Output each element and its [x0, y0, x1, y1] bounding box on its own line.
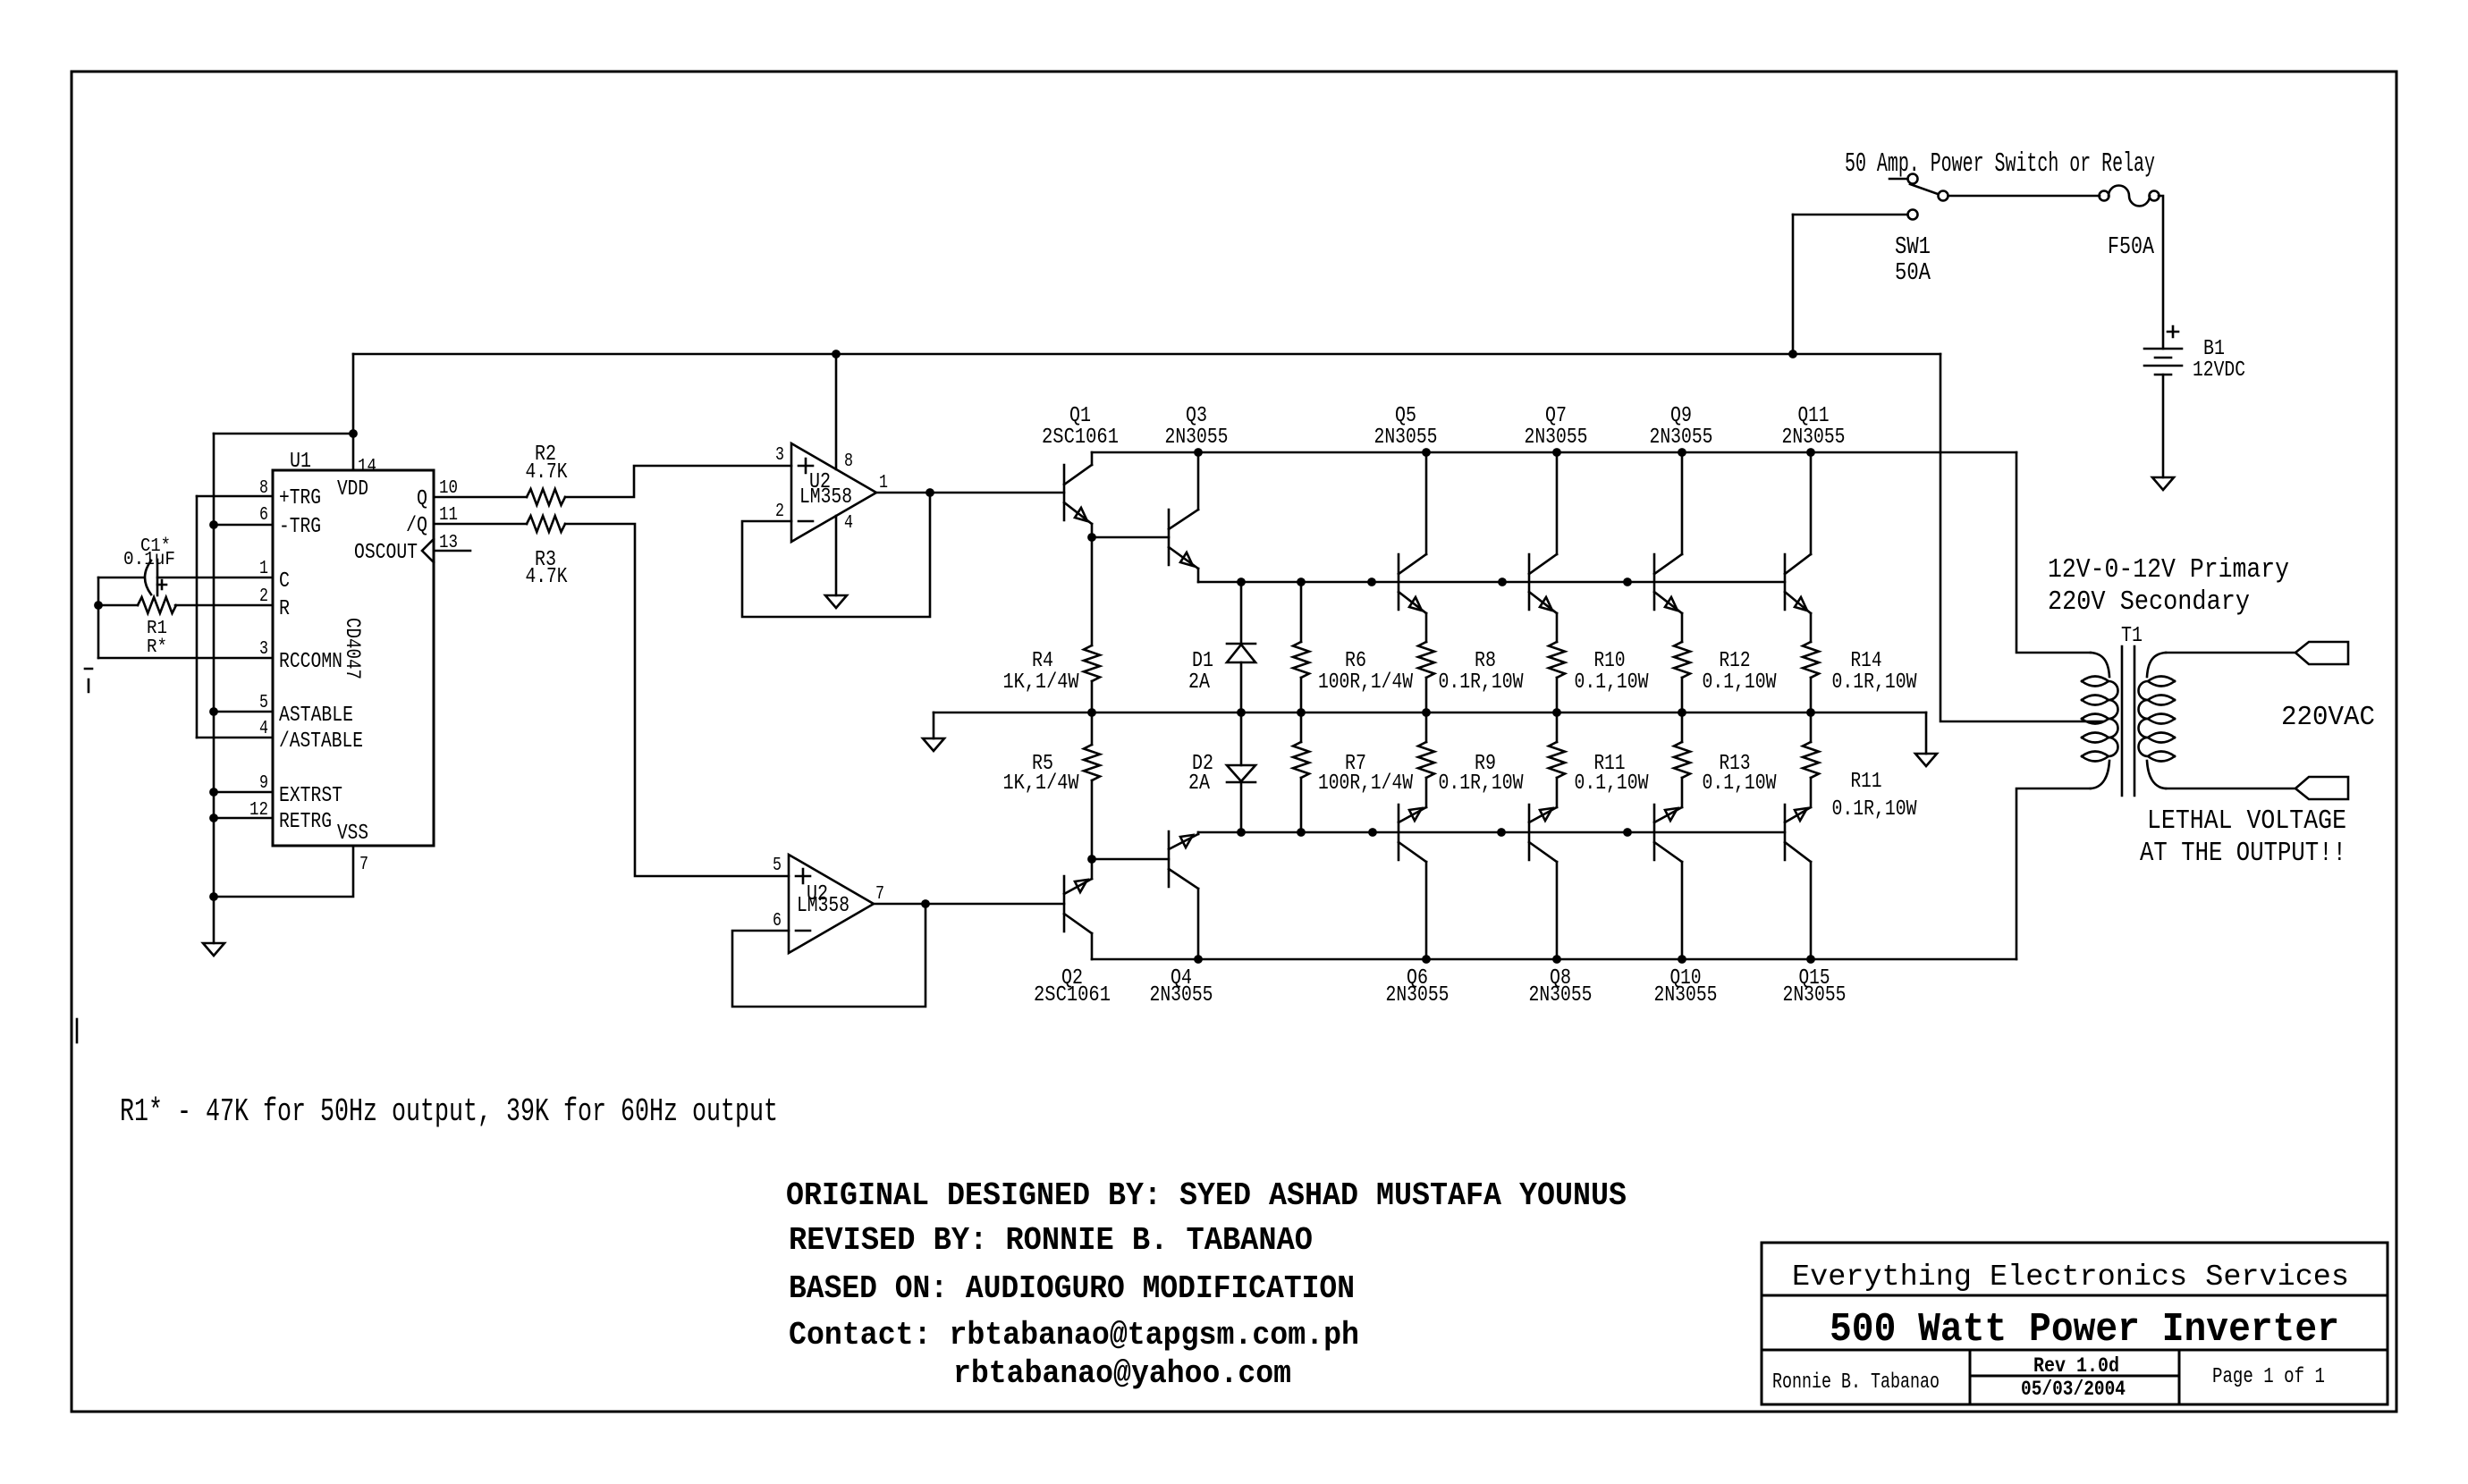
svg-text:R6: R6: [1345, 649, 1366, 673]
svg-text:0.1,10W: 0.1,10W: [1703, 670, 1777, 695]
node op-amp2 feedback tap: [921, 899, 930, 908]
svg-text:rbtabanao@yahoo.com: rbtabanao@yahoo.com: [953, 1355, 1291, 1392]
svg-text:1K,1/4W: 1K,1/4W: [1003, 772, 1079, 796]
wire bottom collector bus: [1092, 958, 2016, 961]
node Q6 collector tap: [1422, 955, 1431, 964]
node bottom base bus junction: [1368, 828, 1377, 837]
wire pin 13 OSCOUT stub: [434, 550, 470, 552]
wire Q15 collector to bottom bus: [1810, 862, 1813, 959]
svg-text:Q7: Q7: [1545, 404, 1567, 428]
svg-text:R12: R12: [1720, 649, 1751, 673]
svg-text:Contact: rbtabanao@tapgsm.com.: Contact: rbtabanao@tapgsm.com.ph: [789, 1317, 1359, 1353]
resistor R2 body: [527, 489, 565, 505]
svg-text:2SC1061: 2SC1061: [1042, 426, 1119, 450]
wire center emitter bus: [934, 712, 1926, 714]
wire Q6 collector to bottom bus: [1425, 862, 1428, 959]
wire left rail down to ground: [213, 434, 216, 943]
wire pin 8 V+ to bus: [835, 354, 838, 469]
wire Q3 collector to bus: [1197, 452, 1200, 510]
wire pin 4 /ASTABLE stub: [197, 737, 273, 739]
svg-text:+TRG: +TRG: [279, 486, 321, 510]
plus symbol U2B: [796, 869, 810, 883]
transformer T1 primary winding: [2091, 653, 2109, 677]
svg-text:10: 10: [439, 478, 458, 499]
wire R11 top lead: [1556, 712, 1559, 742]
resistor R1 body: [138, 597, 176, 613]
wire D1 anode lead: [1240, 662, 1243, 712]
plus symbol U2A: [799, 459, 813, 473]
battery B1: [2168, 326, 2178, 337]
transformer T1 core: [2122, 646, 2134, 796]
wire R8 bottom lead: [1425, 678, 1428, 712]
wire R1 left lead: [98, 604, 138, 607]
svg-text:2N3055: 2N3055: [1165, 426, 1229, 450]
wire pin 7 VSS to left rail: [214, 846, 353, 897]
wire R3 to op-amp pin5: [565, 524, 789, 876]
wire pin 11 /Q stub to R3: [434, 523, 527, 526]
node bottom base bus junction: [1497, 828, 1506, 837]
svg-text:220VAC: 220VAC: [2281, 702, 2375, 733]
node op-amp power tap: [832, 350, 841, 358]
ground under battery: [2152, 477, 2174, 490]
wire R7 bottom lead: [1300, 778, 1303, 832]
resistor R8 body: [1418, 642, 1434, 678]
node center bus junction: [1552, 708, 1561, 717]
svg-text:6: 6: [773, 911, 782, 932]
wire Q8 collector to bottom bus: [1556, 862, 1559, 959]
op-amp U2 first half triangle: [791, 443, 876, 542]
node top base bus junction: [1498, 578, 1507, 586]
wire R2 to op-amp pin3: [565, 466, 791, 497]
node Q10 collector tap: [1678, 955, 1686, 964]
wire secondary bottom to output: [2166, 788, 2295, 790]
wire switch drop to bus: [1792, 215, 1795, 354]
svg-text:D1: D1: [1192, 649, 1213, 673]
wire R6 top lead: [1300, 582, 1303, 642]
svg-text:-TRG: -TRG: [279, 515, 321, 539]
wire Q10 collector to bottom bus: [1681, 862, 1684, 959]
wire Q4 emitter to base bus: [1197, 832, 1200, 834]
svg-text:Ronnie B. Tabanao: Ronnie B. Tabanao: [1772, 1370, 1940, 1395]
svg-text:R8: R8: [1475, 649, 1496, 673]
wire Q5 emitter lead: [1425, 613, 1428, 642]
svg-text:T1: T1: [2121, 624, 2143, 648]
svg-text:2N3055: 2N3055: [1782, 426, 1846, 450]
wire Q7 collector to bus: [1556, 452, 1559, 554]
node switch tap: [1788, 350, 1797, 358]
title block box: [1762, 1243, 2388, 1404]
wire Q5 collector to bus: [1425, 452, 1428, 554]
resistor R7 body: [1293, 742, 1309, 778]
svg-text:0.1R,10W: 0.1R,10W: [1439, 772, 1524, 796]
wire D1 cathode lead: [1240, 582, 1243, 644]
node bottom base bus junction: [1297, 828, 1306, 837]
wire pin 8 +TRG stub: [197, 495, 273, 498]
node ASTABLE junction: [209, 707, 218, 716]
svg-text:Everything Electronics Service: Everything Electronics Services: [1792, 1261, 2349, 1294]
wire Q7 emitter lead: [1556, 613, 1559, 642]
svg-text:0.1R,10W: 0.1R,10W: [1439, 670, 1524, 695]
svg-text:2N3055: 2N3055: [1386, 983, 1450, 1008]
svg-text:R4: R4: [1032, 649, 1053, 673]
wire Q3 emitter to base bus: [1197, 569, 1200, 582]
wire R12 bottom lead: [1681, 678, 1684, 712]
node center bus junction: [1678, 708, 1686, 717]
svg-text:4.7K: 4.7K: [526, 565, 568, 589]
svg-text:2A: 2A: [1188, 670, 1210, 695]
svg-text:0.1R,10W: 0.1R,10W: [1832, 670, 1917, 695]
svg-text:100R,1/4W: 100R,1/4W: [1318, 670, 1413, 695]
svg-text:5: 5: [773, 856, 782, 876]
wire Q6 emitter lead: [1425, 778, 1428, 807]
svg-text:13: 13: [439, 533, 458, 553]
svg-text:0.1,10W: 0.1,10W: [1575, 670, 1649, 695]
node top base bus junction: [1623, 578, 1632, 586]
node EXTRST junction: [209, 788, 218, 797]
transistor Q8 2N3055: [1528, 805, 1531, 860]
node bottom base bus junction: [1237, 828, 1246, 837]
wire Q8 emitter lead: [1556, 778, 1559, 807]
node junction VDD feed: [349, 429, 358, 438]
transistor Q2 2SC1061: [1063, 876, 1066, 932]
wire switch pole to bus: [1793, 214, 1907, 216]
svg-text:2: 2: [775, 502, 784, 522]
resistor R6 body: [1293, 642, 1309, 678]
node RETRG junction: [209, 814, 218, 822]
wire U2A feedback loop to pin2: [742, 493, 930, 617]
svg-text:/ASTABLE: /ASTABLE: [279, 729, 363, 754]
node top base bus junction: [1237, 578, 1246, 586]
svg-text:R: R: [279, 597, 290, 621]
node VSS junction: [209, 892, 218, 901]
svg-text:3: 3: [775, 445, 784, 466]
wire switch to fuse: [1948, 195, 2100, 198]
svg-text:2N3055: 2N3055: [1150, 983, 1213, 1008]
wire pin 3 RCCOMN stub: [98, 657, 273, 660]
svg-text:LM358: LM358: [799, 485, 852, 510]
svg-text:C: C: [279, 569, 290, 594]
ground right of emitter bus: [1915, 754, 1937, 766]
svg-text:ORIGINAL DESIGNED BY: SYED ASH: ORIGINAL DESIGNED BY: SYED ASHAD MUSTAFA…: [786, 1177, 1627, 1214]
transistor Q5 2N3055: [1398, 554, 1400, 610]
wire Q4 collector to bottom bus: [1197, 889, 1200, 959]
node center bus junction: [1237, 708, 1246, 717]
svg-text:R10: R10: [1594, 649, 1626, 673]
wire R6 bottom lead: [1300, 678, 1303, 712]
node Q1 emitter junction: [1087, 533, 1096, 542]
svg-text:220V Secondary: 220V Secondary: [2048, 586, 2250, 618]
node center bus junction: [1297, 708, 1306, 717]
node top base bus junction: [1367, 578, 1376, 586]
resistor R12 body: [1674, 642, 1690, 678]
wire secondary top to output: [2166, 652, 2295, 654]
transistor Q7 2N3055: [1528, 554, 1531, 610]
node Q2 emitter junction: [1087, 855, 1096, 864]
svg-text:R1* - 47K for 50Hz output, 39K: R1* - 47K for 50Hz output, 39K for 60Hz …: [120, 1093, 778, 1130]
svg-text:4: 4: [259, 719, 268, 739]
wire R4 bottom lead: [1091, 681, 1094, 712]
wire Q2 emitter up: [1091, 859, 1094, 879]
wire Q1 collector to bus: [1091, 452, 1094, 465]
svg-text:Q3: Q3: [1186, 404, 1207, 428]
wire fuse to battery: [2159, 196, 2163, 349]
svg-text:F50A: F50A: [2108, 234, 2155, 261]
wire pin 2 R stub to R1: [175, 604, 273, 607]
resistor R11 body: [1549, 742, 1565, 778]
wire R5 bottom lead: [1091, 780, 1094, 859]
wire left loop vertical: [97, 578, 100, 658]
svg-text:12VDC: 12VDC: [2193, 358, 2245, 383]
wire Q11 emitter lead: [1810, 613, 1813, 642]
svg-text:9: 9: [259, 773, 268, 794]
node Q5 collector tap: [1422, 448, 1431, 457]
svg-text:R1: R1: [147, 619, 167, 639]
wire center bus right ground drop: [1925, 712, 1928, 754]
wire Q1 emitter down: [1091, 524, 1094, 537]
svg-text:B1: B1: [2203, 337, 2225, 361]
node R1 left junction: [94, 601, 103, 610]
svg-text:VDD: VDD: [337, 477, 368, 502]
node -TRG junction: [209, 520, 218, 529]
ground left of emitter bus: [923, 738, 944, 751]
node op-amp1 feedback tap: [925, 488, 934, 497]
wire bottom bus to transformer primary bottom: [2016, 788, 2091, 959]
transistor Q3 2N3055: [1168, 510, 1171, 565]
svg-text:Q1: Q1: [1069, 404, 1091, 428]
svg-text:1: 1: [259, 559, 268, 579]
svg-text:8: 8: [844, 451, 853, 472]
wire VDD pin14 up to +12V bus: [352, 354, 355, 470]
wire battery minus to ground: [2162, 375, 2165, 477]
wire pin 9 EXTRST stub: [214, 791, 273, 794]
svg-text:05/03/2004: 05/03/2004: [2021, 1378, 2126, 1401]
svg-text:2A: 2A: [1188, 772, 1210, 796]
svg-text:R*: R*: [147, 637, 167, 658]
transistor Q9 2N3055: [1653, 554, 1656, 610]
svg-text:2SC1061: 2SC1061: [1034, 983, 1111, 1008]
wire top collector bus: [1092, 451, 2016, 454]
wire D2 cathode lead: [1240, 782, 1243, 832]
wire Q11 collector to bus: [1810, 452, 1813, 554]
svg-text:LETHAL VOLTAGE: LETHAL VOLTAGE: [2147, 805, 2346, 837]
svg-text:VSS: VSS: [337, 822, 368, 846]
transistor Q6 2N3055: [1398, 805, 1400, 860]
svg-text:U1: U1: [290, 450, 311, 474]
minus symbol U2A: [799, 520, 813, 523]
svg-text:LM358: LM358: [797, 894, 849, 918]
svg-text:500 Watt Power Inverter: 500 Watt Power Inverter: [1830, 1307, 2339, 1353]
node center bus junction: [1422, 708, 1431, 717]
svg-text:AT THE OUTPUT!!: AT THE OUTPUT!!: [2140, 838, 2346, 869]
svg-text:4: 4: [844, 513, 853, 534]
wire R14 bottom lead: [1810, 678, 1813, 712]
wire D2 anode lead: [1240, 712, 1243, 765]
transistor Q4 2N3055: [1168, 831, 1171, 887]
output connector bottom: [2295, 777, 2348, 799]
svg-text:2N3055: 2N3055: [1654, 983, 1718, 1008]
svg-text:RETRG: RETRG: [279, 810, 332, 834]
node Q4 collector tap: [1194, 955, 1203, 964]
wire Q1 emitter to Q3 base: [1092, 536, 1169, 539]
wire pin 10 Q stub to R2: [434, 496, 527, 499]
svg-text:7: 7: [359, 855, 368, 875]
wire R10 bottom lead: [1556, 678, 1559, 712]
wire C1 left plate to rail: [98, 577, 143, 579]
wire Q10 emitter lead: [1681, 778, 1684, 807]
svg-text:8: 8: [259, 478, 268, 499]
node Q8 collector tap: [1552, 955, 1561, 964]
transistor Q15 2N3055: [1784, 805, 1787, 860]
resistor R11 body: [1803, 742, 1819, 778]
svg-text:11: 11: [439, 505, 458, 526]
svg-text:1: 1: [879, 473, 888, 493]
node center bus junction: [1806, 708, 1815, 717]
wire +12V top bus: [353, 353, 1940, 356]
svg-text:Page 1 of 1: Page 1 of 1: [2212, 1365, 2325, 1389]
wire U2B feedback loop to pin6: [732, 904, 925, 1007]
svg-text:50 Amp. Power Switch or Relay: 50 Amp. Power Switch or Relay: [1845, 148, 2155, 180]
resistor R5 body: [1084, 745, 1100, 780]
wire Q9 emitter lead: [1681, 613, 1684, 642]
svg-text:4.7K: 4.7K: [526, 460, 568, 485]
wire Q2 collector to bottom bus: [1091, 933, 1094, 959]
op-amp U2 second half triangle: [789, 855, 874, 953]
svg-text:6: 6: [259, 505, 268, 526]
output connector top: [2295, 642, 2348, 664]
stray mark left margin: [85, 669, 92, 692]
svg-text:0.1,10W: 0.1,10W: [1575, 772, 1649, 796]
svg-text:EXTRST: EXTRST: [279, 784, 342, 808]
resistor R13 body: [1674, 742, 1690, 778]
svg-text:5: 5: [259, 693, 268, 713]
transistor Q11 2N3055: [1784, 554, 1787, 610]
svg-text:BASED ON: AUDIOGURO MODIFICATI: BASED ON: AUDIOGURO MODIFICATION: [789, 1270, 1355, 1307]
diode D2 2A: [1227, 765, 1255, 781]
svg-text:R11: R11: [1851, 770, 1882, 794]
node top base bus junction: [1297, 578, 1306, 586]
transistor Q10 2N3055: [1653, 805, 1656, 860]
wire Q2 emitter to Q4 base: [1092, 858, 1169, 861]
svg-text:Q: Q: [417, 487, 427, 511]
wire pin 5 ASTABLE stub: [214, 711, 273, 713]
svg-text:Rev 1.0d: Rev 1.0d: [2033, 1354, 2119, 1378]
wire switch top stub: [1889, 178, 1907, 181]
svg-text:3: 3: [259, 639, 268, 660]
svg-text:2N3055: 2N3055: [1374, 426, 1438, 450]
svg-text:CD4047: CD4047: [341, 618, 364, 679]
wire bus down to transformer center tap: [1940, 354, 2103, 721]
wire op-amp output pin1 to Q1 base: [876, 492, 1064, 494]
svg-text:1K,1/4W: 1K,1/4W: [1003, 670, 1079, 695]
svg-text:50A: 50A: [1895, 260, 1931, 287]
svg-text:14: 14: [358, 457, 376, 477]
resistor R3 body: [527, 516, 565, 532]
node Q3 collector tap: [1194, 448, 1203, 457]
svg-text:2: 2: [259, 586, 268, 607]
svg-text:ASTABLE: ASTABLE: [279, 704, 353, 728]
OSCOUT arrow chevron: [422, 539, 434, 562]
wire pin8 to pin4 rail: [196, 496, 199, 738]
wire bottom base bus: [1198, 831, 1785, 834]
node Q7 collector tap: [1552, 448, 1561, 457]
wire pin 6 -TRG stub: [214, 524, 273, 527]
wire R4 top lead: [1091, 537, 1094, 645]
resistor R10 body: [1549, 642, 1565, 678]
fuse F50A: [2100, 191, 2109, 201]
wire center bus left ground drop: [933, 712, 935, 738]
svg-text:0.1R,10W: 0.1R,10W: [1832, 797, 1917, 822]
svg-text:0.1,10W: 0.1,10W: [1703, 772, 1777, 796]
svg-text:100R,1/4W: 100R,1/4W: [1318, 772, 1413, 796]
svg-text:12: 12: [249, 800, 268, 821]
wire from VDD node to left rail: [214, 433, 353, 435]
wire pin 12 RETRG stub: [214, 817, 273, 820]
wire R13 top lead: [1681, 712, 1684, 742]
svg-text:2N3055: 2N3055: [1529, 983, 1593, 1008]
svg-text:2N3055: 2N3055: [1650, 426, 1713, 450]
node Q15 collector tap: [1806, 955, 1815, 964]
IC U1 CD4047 body: [273, 470, 434, 846]
wire top base bus: [1198, 581, 1785, 584]
wire Q9 collector to bus: [1681, 452, 1684, 554]
svg-text:R14: R14: [1851, 649, 1882, 673]
svg-text:Q11: Q11: [1798, 404, 1830, 428]
wire R5 top lead: [1091, 712, 1094, 745]
svg-text:/Q: /Q: [406, 514, 427, 538]
ground under op-amp U2A: [825, 595, 847, 608]
svg-text:2N3055: 2N3055: [1783, 983, 1847, 1008]
svg-text:7: 7: [875, 884, 884, 905]
svg-text:Q5: Q5: [1395, 404, 1416, 428]
svg-text:REVISED BY: RONNIE B. TABANAO: REVISED BY: RONNIE B. TABANAO: [789, 1222, 1313, 1259]
node Q9 collector tap: [1678, 448, 1686, 457]
svg-text:0.1uF: 0.1uF: [123, 550, 175, 570]
diode D1 2A: [1227, 643, 1255, 645]
svg-text:SW1: SW1: [1895, 234, 1931, 261]
node bottom base bus junction: [1623, 828, 1632, 837]
transistor Q1 2SC1061: [1063, 465, 1066, 520]
wire R7 top lead: [1300, 712, 1303, 742]
wire pin 1 C stub to C1: [157, 577, 273, 579]
wire R9 top lead: [1425, 712, 1428, 742]
wire R11 top lead: [1810, 712, 1813, 742]
node Q11 collector tap: [1806, 448, 1815, 457]
wire op-amp output pin7 to Q2 base: [874, 903, 1064, 906]
node center bus junction: [1087, 708, 1096, 717]
resistor R14 body: [1803, 642, 1819, 678]
svg-text:RCCOMN: RCCOMN: [279, 650, 342, 674]
resistor R9 body: [1418, 742, 1434, 778]
svg-text:12V-0-12V Primary: 12V-0-12V Primary: [2048, 554, 2289, 586]
resistor R4 body: [1084, 645, 1100, 681]
wire Q15 emitter lead: [1810, 778, 1813, 807]
svg-text:Q9: Q9: [1670, 404, 1692, 428]
capacitor C1: [156, 560, 159, 595]
ground under U1: [203, 943, 224, 956]
wire collector bus to transformer primary top: [2016, 452, 2091, 653]
minus symbol U2B: [796, 930, 810, 932]
transformer T1 secondary winding: [2147, 653, 2166, 677]
svg-text:OSCOUT: OSCOUT: [354, 541, 418, 565]
svg-text:2N3055: 2N3055: [1525, 426, 1588, 450]
wire pin 4 V- to ground: [835, 516, 838, 595]
